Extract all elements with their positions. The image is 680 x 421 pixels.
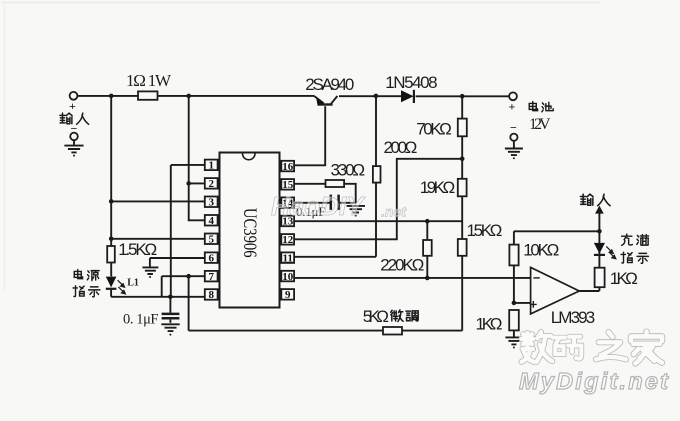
svg-text:8: 8 <box>208 289 214 301</box>
svg-text:5KΩ: 5KΩ <box>363 307 389 326</box>
svg-text:6: 6 <box>208 252 214 264</box>
svg-text:12V: 12V <box>529 116 551 133</box>
svg-text:2: 2 <box>208 178 214 190</box>
svg-text:LM393: LM393 <box>551 308 596 327</box>
svg-text:2SA940: 2SA940 <box>305 75 354 94</box>
svg-text:1KΩ: 1KΩ <box>476 315 503 334</box>
svg-text:4: 4 <box>208 215 214 227</box>
svg-text:3: 3 <box>208 197 214 209</box>
svg-text:15: 15 <box>282 179 294 191</box>
svg-text:12: 12 <box>282 234 294 246</box>
svg-text:0. 1μF: 0. 1μF <box>123 312 159 328</box>
svg-text:HaoDIY: HaoDIY <box>271 191 366 221</box>
svg-text:330Ω: 330Ω <box>331 161 366 180</box>
svg-text:10: 10 <box>282 271 294 283</box>
svg-text:MyDigit.net: MyDigit.net <box>519 368 669 394</box>
svg-text:+: + <box>509 100 516 114</box>
svg-text:1: 1 <box>208 160 214 172</box>
svg-text:1Ω 1W: 1Ω 1W <box>126 71 172 90</box>
svg-text:1KΩ: 1KΩ <box>610 269 638 288</box>
svg-text:19KΩ: 19KΩ <box>420 178 455 197</box>
svg-text:11: 11 <box>282 252 292 264</box>
svg-text:1N5408: 1N5408 <box>385 73 437 92</box>
svg-text:L1: L1 <box>127 278 139 289</box>
svg-text:15KΩ: 15KΩ <box>467 221 503 240</box>
svg-text:+: + <box>69 99 76 113</box>
svg-text:220KΩ: 220KΩ <box>380 255 424 274</box>
svg-text:5: 5 <box>208 234 214 246</box>
svg-text:−: − <box>510 121 517 135</box>
svg-text:16: 16 <box>282 161 294 173</box>
svg-text:200Ω: 200Ω <box>384 138 418 157</box>
svg-text:UC3906: UC3906 <box>239 208 260 258</box>
svg-text:70KΩ: 70KΩ <box>416 119 452 138</box>
svg-text:1.5KΩ: 1.5KΩ <box>118 240 157 259</box>
svg-text:.net: .net <box>381 204 407 220</box>
svg-text:7: 7 <box>208 271 214 283</box>
svg-text:10KΩ: 10KΩ <box>523 240 559 259</box>
svg-text:9: 9 <box>285 289 291 301</box>
